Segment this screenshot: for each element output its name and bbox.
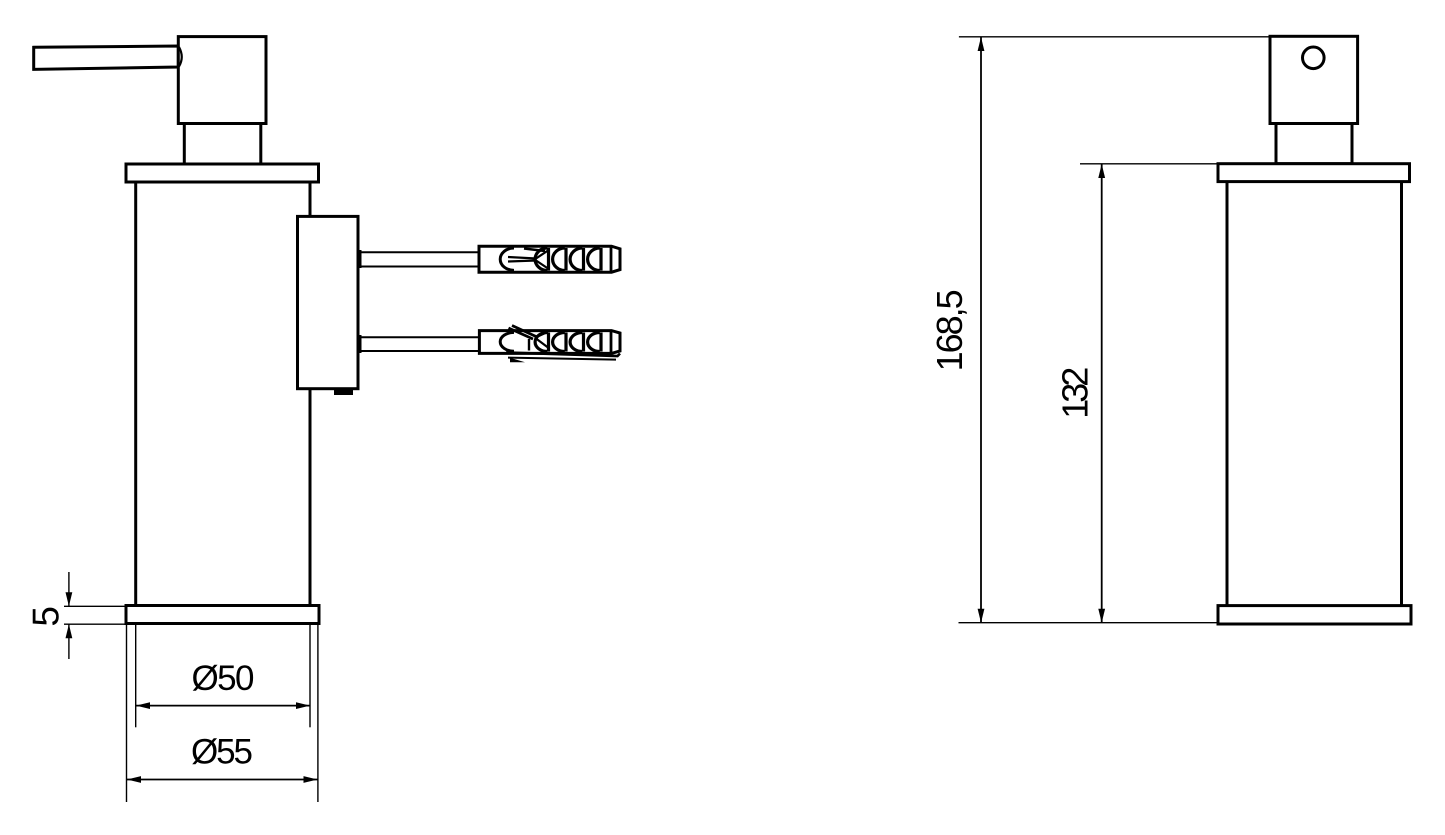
dimension 168,5: extension lines: [959, 37, 1273, 623]
front view: pump head: [1270, 36, 1358, 123]
svg-text:168,5: 168,5: [929, 289, 970, 371]
dimension 132: extension line: [1080, 163, 1218, 165]
pump spout (side view): [34, 46, 179, 69]
svg-text:Ø55: Ø55: [191, 733, 253, 772]
body cylinder left edge (side view): [134, 182, 137, 606]
bottom flange (side view): [126, 606, 319, 624]
dimension Ø50: extension lines: [136, 624, 310, 728]
dimension 168,5: dimension line with arrows: [980, 37, 982, 623]
front view: bottom flange: [1218, 606, 1411, 624]
dimension 5: arrowheads: [66, 592, 73, 606]
screw 1 head bar: [357, 250, 362, 268]
pump head (side view): [178, 37, 266, 124]
screw 2 head bar: [357, 335, 362, 353]
svg-text:5: 5: [26, 606, 67, 627]
dimension Ø55: extension lines: [127, 624, 318, 803]
body cylinder right edge (side view): [309, 182, 312, 606]
front view: body left edge: [1226, 182, 1229, 606]
wall anchor 1 (top dowel): [479, 246, 620, 272]
wall bracket plate: [298, 216, 359, 388]
dimension Ø50: dimension line with arrows: [136, 705, 310, 707]
svg-text:Ø50: Ø50: [192, 659, 255, 698]
front view: pump head hole: [1303, 47, 1325, 69]
front view: body right edge: [1400, 182, 1403, 606]
dimension 5: extension lines: [64, 572, 126, 659]
front view: pump neck: [1276, 124, 1352, 164]
svg-text:132: 132: [1055, 367, 1096, 419]
dimension Ø55: dimension line with arrows: [127, 779, 318, 781]
wall anchor 2 (bottom dowel): [479, 326, 620, 363]
screw 1 shaft: [361, 252, 480, 266]
top flange (side view): [126, 164, 319, 182]
front view: top flange: [1218, 164, 1410, 182]
dimension 132: dimension line with arrows: [1101, 164, 1103, 623]
screw 2 shaft: [361, 337, 480, 351]
pump neck (side view): [184, 124, 260, 165]
bracket bottom nub: [334, 390, 353, 396]
spout-head joint arc: [179, 47, 182, 67]
